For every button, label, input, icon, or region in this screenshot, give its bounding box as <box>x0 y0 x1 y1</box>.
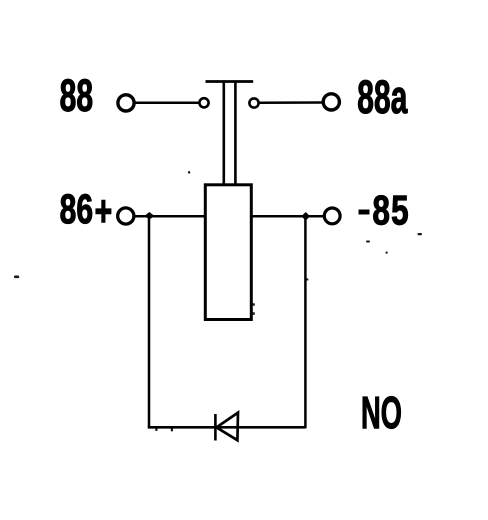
wire 88 terminal to left contact <box>135 102 200 105</box>
label NO <box>363 396 401 428</box>
label 85 <box>373 195 407 224</box>
armature plunger right line <box>234 82 237 184</box>
label 88 <box>61 79 93 111</box>
diode D1 cathode bar <box>214 414 217 441</box>
terminal 88 circle <box>118 95 134 111</box>
terminal 86 circle <box>118 208 134 224</box>
wire right vertical <box>304 216 307 428</box>
wire 86 terminal to coil <box>134 215 205 218</box>
contact point right (small circle) <box>249 98 258 107</box>
armature plunger left line <box>223 82 226 184</box>
label minus sign of -85 <box>359 210 370 215</box>
label plus sign of 86+ <box>96 200 111 222</box>
armature top bar <box>206 80 254 83</box>
diode D1 triangle <box>217 413 239 441</box>
label 88a <box>358 80 407 113</box>
wire bottom <box>148 426 306 429</box>
label 86+ <box>61 194 92 223</box>
wire right contact to 88a terminal <box>260 101 323 104</box>
wire left vertical <box>148 216 151 428</box>
terminal 85 circle <box>324 208 340 224</box>
wire coil to 85 terminal <box>253 215 324 218</box>
junction left (node) <box>145 212 155 220</box>
terminal 88a circle <box>323 94 339 110</box>
contact point left (small circle) <box>199 98 208 107</box>
coil K1 <box>205 185 251 320</box>
junction right (node) <box>301 212 310 221</box>
